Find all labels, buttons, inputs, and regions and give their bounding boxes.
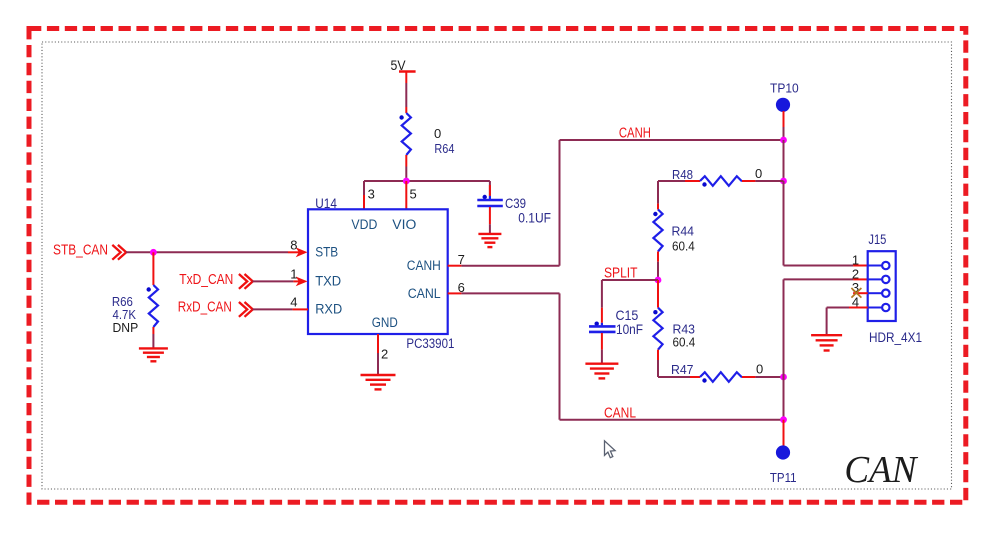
wire R48 corner down to R44 [657,181,659,210]
testpoint TP11 [770,445,797,485]
svg-text:CANH: CANH [407,258,441,273]
wire J15 pin3 stub (no connect) [853,292,868,294]
svg-text:TXD: TXD [315,274,341,289]
port TxD_CAN [179,272,253,289]
wire SPLIT to R43 [657,280,659,308]
svg-text:R48: R48 [672,167,693,182]
ground (J15) [811,335,842,350]
no-connect X pin3 [851,288,861,298]
svg-text:U14: U14 [315,196,337,211]
wire R43 to R47 corner [658,350,700,377]
svg-text:GND: GND [372,315,398,330]
wire TxD_CAN to pin1 [253,280,300,282]
wire junction to C39 [489,181,491,196]
svg-text:6: 6 [458,280,465,295]
wire CANH horizontal [560,139,784,141]
wire R66 to ground [152,327,154,348]
power 5V [391,57,416,73]
svg-text:HDR_4X1: HDR_4X1 [869,329,922,345]
wire CANH to R48 junction [783,140,785,181]
svg-text:CANL: CANL [408,286,441,301]
svg-text:DNP: DNP [113,320,139,335]
svg-text:1: 1 [290,266,297,281]
svg-text:8: 8 [290,237,297,252]
port RxD_CAN [178,300,253,317]
svg-text:PC33901: PC33901 [406,336,454,351]
svg-text:7: 7 [458,252,465,267]
wire R48 left branch [658,180,700,182]
resistor R47 [671,362,763,383]
wire SPLIT to C15 [602,280,658,323]
ground (C15) [585,364,618,379]
node R48 junction [780,178,787,185]
wire C15 to ground [601,333,603,364]
svg-text:STB: STB [315,245,338,260]
svg-text:CAN: CAN [844,449,919,491]
resistor R66 [112,285,158,335]
svg-text:J15: J15 [868,232,886,247]
svg-text:VIO: VIO [392,217,416,232]
wire pin7 CANH to corner [448,140,560,266]
svg-text:0: 0 [434,126,441,141]
wire pin3 stub [363,181,365,209]
mouse cursor [605,441,616,458]
svg-text:C39: C39 [505,196,526,211]
wire pin5 stub [405,181,407,209]
wire J15 pin2 to CANL line [784,279,868,419]
svg-text:R64: R64 [434,141,454,156]
svg-text:2: 2 [381,347,388,362]
port STB_CAN [53,243,126,260]
wire VDD rail horizontal [364,180,490,182]
wire R48 junction to J15 pin1 [784,181,868,266]
svg-text:R47: R47 [671,362,694,377]
ground (R66) [139,348,168,361]
testpoint TP10 [770,80,799,112]
svg-text:60.4: 60.4 [673,335,696,350]
svg-text:TxD_CAN: TxD_CAN [179,272,233,288]
capacitor C39 [477,195,551,226]
node STB junction [150,249,157,256]
pin arrowhead pin1 [296,277,308,287]
resistor R44 [653,210,695,254]
wire pin6 CANL to corner [448,293,560,419]
svg-text:1: 1 [852,253,859,268]
wire RxD_CAN to pin4 [253,308,309,310]
svg-text:R44: R44 [672,224,695,239]
capacitor C15 [589,308,643,337]
svg-text:60.4: 60.4 [672,238,695,253]
svg-text:5: 5 [410,187,417,202]
svg-text:TP10: TP10 [770,80,799,95]
svg-text:TP11: TP11 [770,470,797,485]
resistor R48 [672,166,762,187]
connector J15 [868,232,922,345]
svg-text:4: 4 [290,294,297,309]
node CANL junction [780,416,787,423]
svg-text:0.1UF: 0.1UF [518,210,551,225]
IC U14 [308,196,454,351]
wire R48 right to junction [742,180,784,182]
wire STB_CAN to pin8 [126,251,299,253]
pin arrowhead pin8 [296,247,308,257]
wire R64 to junction [405,155,407,181]
wire C39 to ground [489,207,491,234]
svg-text:C15: C15 [616,308,639,323]
node R47 junction [780,374,787,381]
ground (C39) [478,234,501,247]
wire CANL to TP11 [783,420,785,446]
svg-text:10nF: 10nF [616,322,643,337]
wire STB junction to R66 [152,252,154,285]
wire CANL horizontal [560,419,784,421]
wire TP10 down [783,111,785,140]
resistor R43 [653,308,695,350]
svg-text:0: 0 [755,166,762,181]
wire 5V to R64 [405,72,407,114]
node SPLIT [655,277,662,284]
node CANH junction [780,137,787,144]
svg-text:0: 0 [756,362,763,377]
svg-text:VDD: VDD [351,217,377,232]
node VDD junction [403,178,410,185]
ground (U14 GND) [361,375,396,389]
svg-text:3: 3 [368,187,375,202]
wire R47 right to junction [742,376,784,378]
wire R44 to SPLIT [657,252,659,281]
svg-text:RxD_CAN: RxD_CAN [178,300,232,316]
svg-text:STB_CAN: STB_CAN [53,243,108,259]
wire pin2 GND stub [377,334,379,375]
svg-text:RXD: RXD [315,301,342,316]
wire J15 pin4 to ground [827,308,868,336]
resistor R64 [399,113,454,156]
svg-text:2: 2 [852,266,859,281]
